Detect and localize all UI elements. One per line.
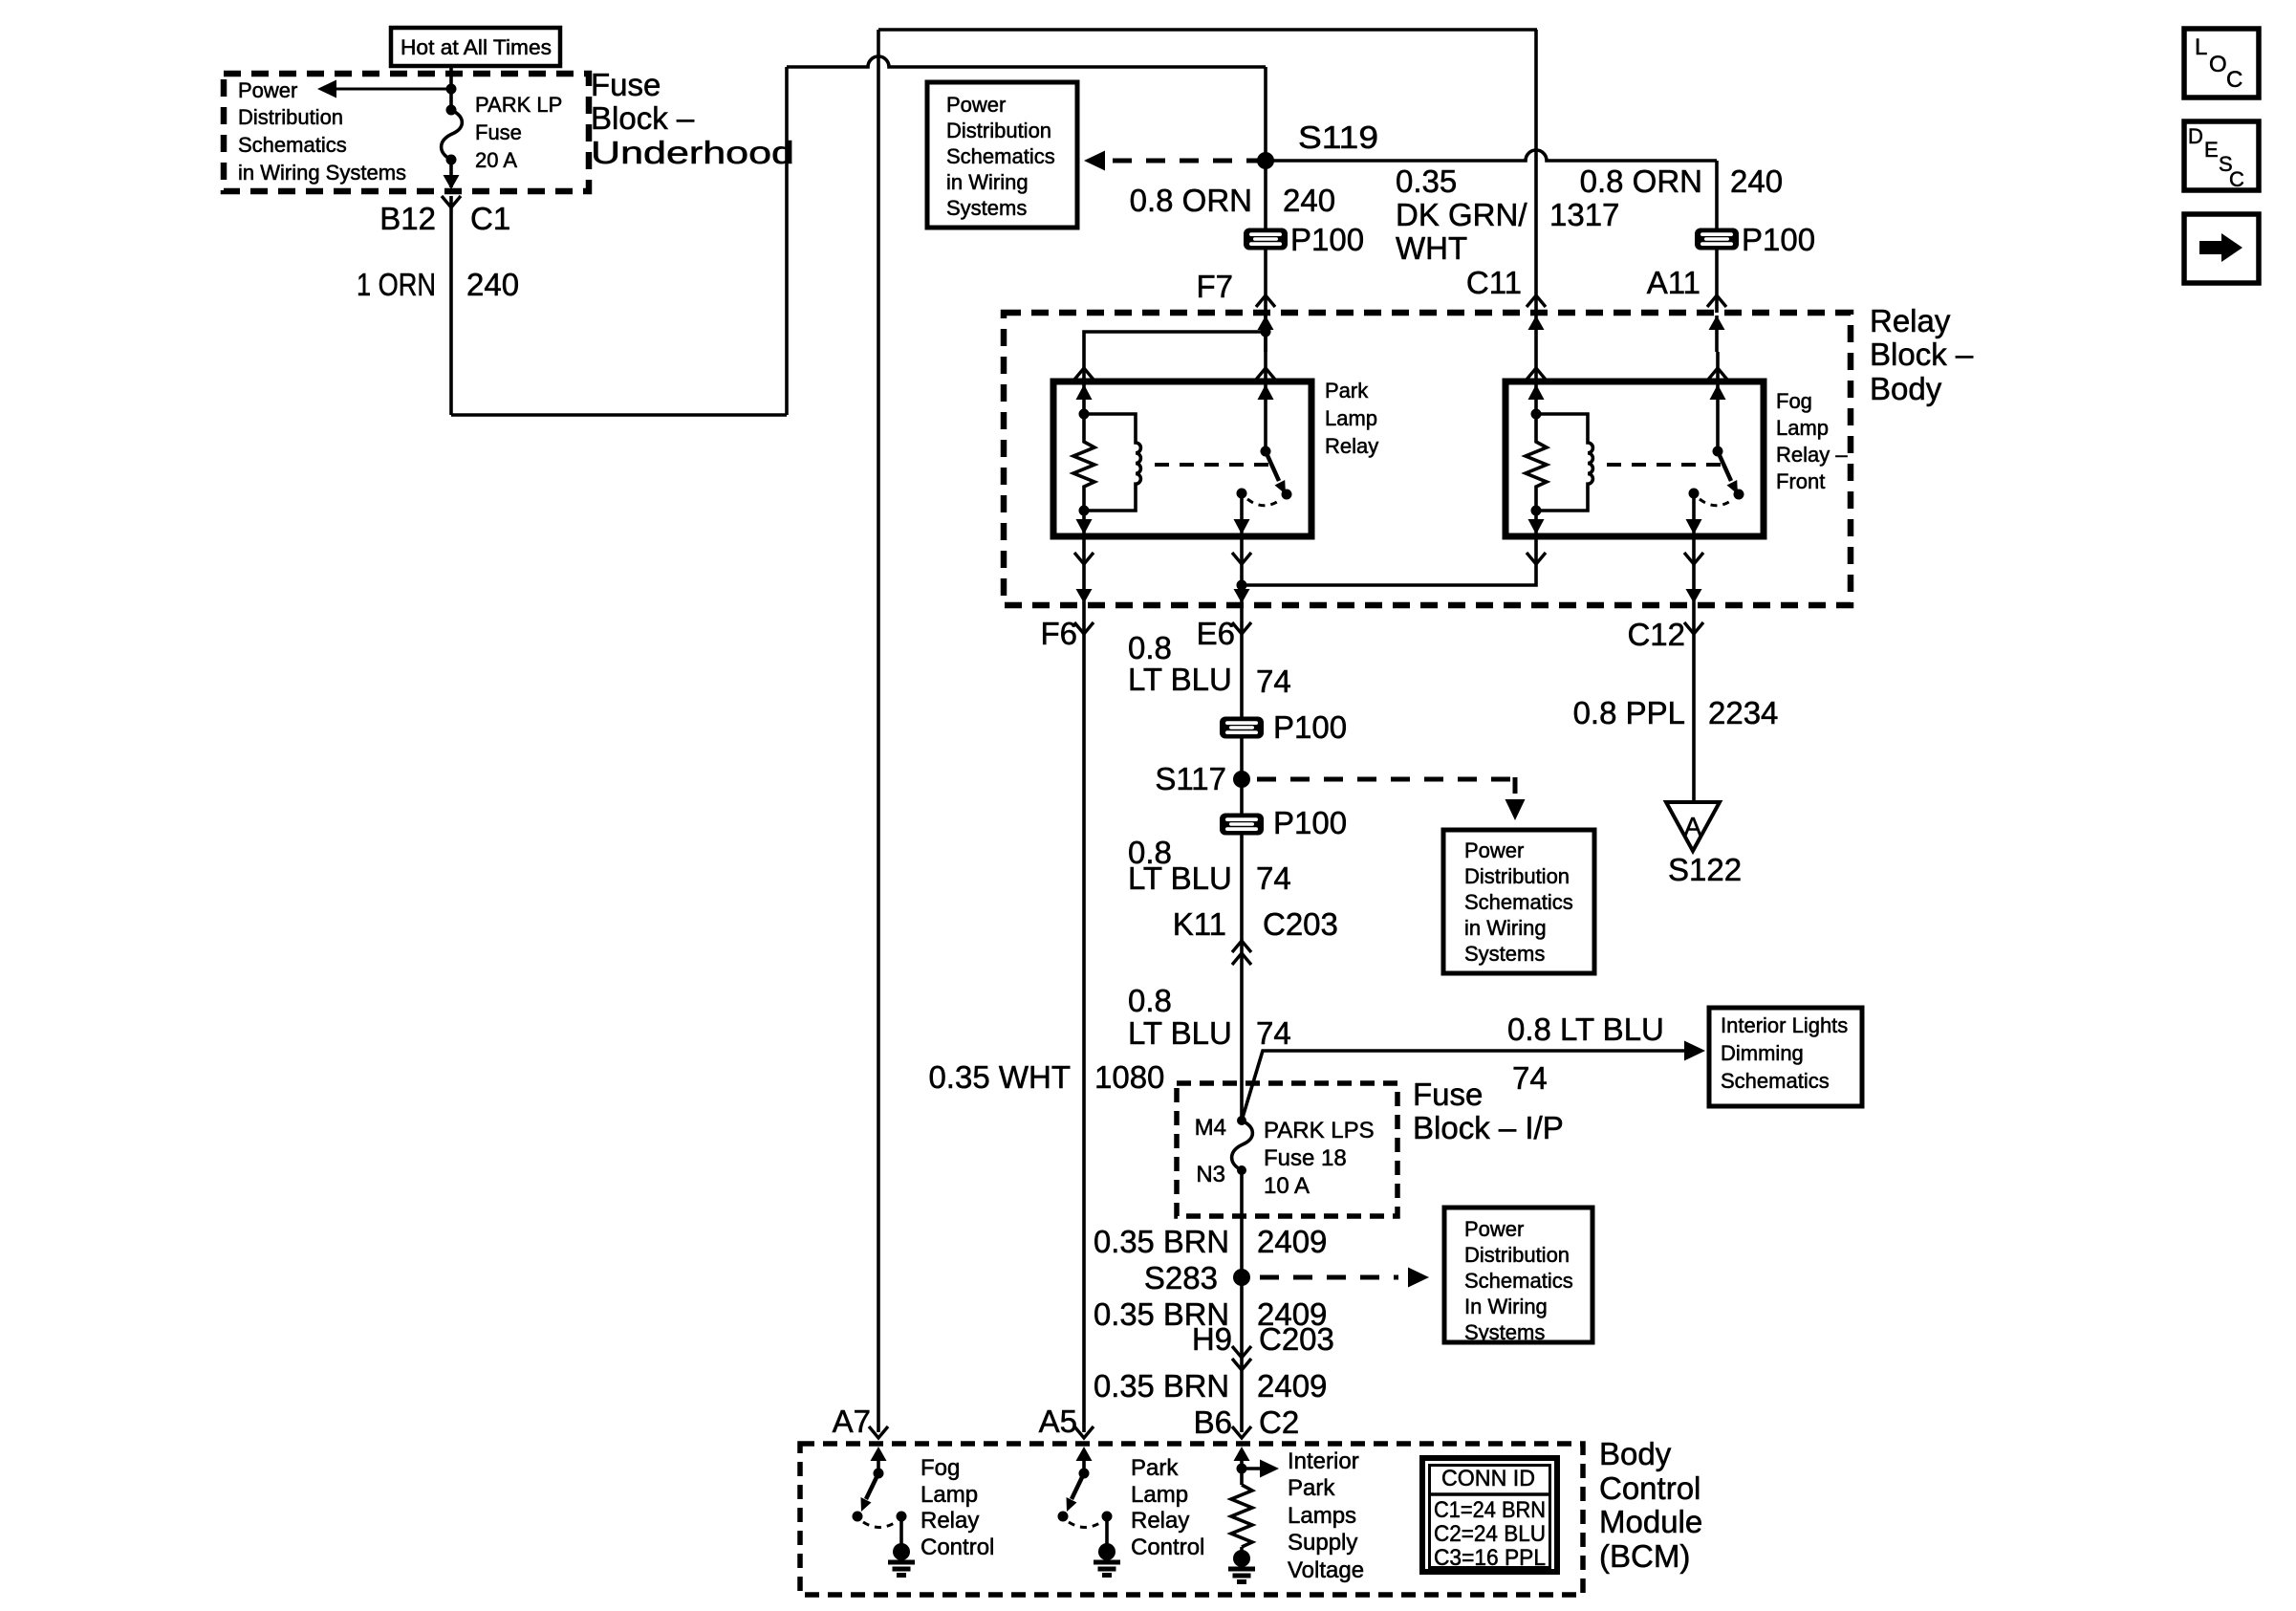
block Fuse Block - I/P dashed box <box>1177 1083 1397 1216</box>
svg-text:240: 240 <box>466 267 519 302</box>
svg-text:74: 74 <box>1256 860 1291 896</box>
svg-text:Hot at All Times: Hot at All Times <box>401 35 552 59</box>
wire F7 drop to S119 and down to relay block <box>1264 67 1267 381</box>
svg-text:C: C <box>2229 167 2244 191</box>
svg-text:A7: A7 <box>833 1404 871 1439</box>
svg-text:C203: C203 <box>1263 906 1338 942</box>
svg-text:A: A <box>1684 812 1702 841</box>
svg-text:Dimming: Dimming <box>1721 1041 1804 1065</box>
svg-text:Distribution: Distribution <box>1464 864 1570 888</box>
svg-text:Front: Front <box>1776 469 1825 493</box>
svg-text:74: 74 <box>1256 664 1291 699</box>
svg-text:0.8 ORN: 0.8 ORN <box>1130 183 1252 218</box>
svg-text:0.35 WHT: 0.35 WHT <box>928 1059 1071 1095</box>
svg-text:74: 74 <box>1512 1060 1548 1096</box>
wire branch from F7 to park relay coil <box>1084 332 1266 381</box>
wire horizontal y434 of C1 loop <box>451 413 787 417</box>
svg-text:Module: Module <box>1599 1504 1702 1539</box>
svg-text:D: D <box>2188 124 2203 148</box>
off-page connector triangle A (S122) <box>1666 802 1720 851</box>
svg-text:Voltage: Voltage <box>1288 1557 1364 1583</box>
svg-text:C2: C2 <box>1259 1404 1299 1440</box>
svg-text:in Wiring: in Wiring <box>946 170 1029 194</box>
svg-text:Park: Park <box>1288 1475 1335 1501</box>
svg-text:0.35: 0.35 <box>1396 163 1457 199</box>
wire A11 into fog relay switch <box>1716 352 1720 381</box>
button next arrow <box>2184 214 2259 283</box>
svg-text:S283: S283 <box>1144 1260 1218 1295</box>
svg-text:Interior: Interior <box>1288 1448 1359 1474</box>
svg-text:Power: Power <box>238 78 297 102</box>
svg-text:CONN ID: CONN ID <box>1441 1466 1535 1491</box>
svg-text:2409: 2409 <box>1257 1368 1327 1404</box>
svg-text:WHT: WHT <box>1396 230 1467 266</box>
switch Fog Lamp Relay Control (A7) <box>871 1447 887 1461</box>
svg-text:Block –: Block – <box>1870 337 1974 372</box>
svg-text:In Wiring: In Wiring <box>1464 1295 1548 1318</box>
svg-text:Control: Control <box>1131 1535 1204 1560</box>
fuse PARK LPS Fuse 18 10 A <box>1237 1116 1246 1125</box>
connector P100 on F7 wire <box>1244 229 1288 250</box>
fuse PARK LP 20 A <box>446 105 457 116</box>
box Power Distribution Schematics In Wiring Systems (S283) <box>1444 1208 1592 1342</box>
connector chevron C1 below fuse block <box>442 196 461 207</box>
dashed arrow S117 to Power Distribution box <box>1257 777 1515 782</box>
node junction on fuse feed <box>446 84 457 95</box>
svg-text:0.35 BRN: 0.35 BRN <box>1094 1368 1229 1404</box>
svg-text:Power: Power <box>946 93 1006 117</box>
svg-text:C203: C203 <box>1259 1321 1334 1357</box>
svg-text:Schematics: Schematics <box>1464 890 1573 914</box>
wire arrow to Power Distribution Schematics (left) <box>335 88 451 91</box>
svg-text:Relay –: Relay – <box>1776 443 1848 467</box>
svg-text:Schematics: Schematics <box>1721 1069 1830 1093</box>
svg-text:0.8: 0.8 <box>1128 983 1172 1018</box>
svg-text:1317: 1317 <box>1549 197 1619 232</box>
svg-text:Body: Body <box>1870 371 1942 406</box>
svg-text:Distribution: Distribution <box>1464 1243 1570 1267</box>
wire left tall rail down to BCM A7 <box>877 30 880 1432</box>
svg-text:S119: S119 <box>1298 120 1378 155</box>
svg-text:Systems: Systems <box>1464 1320 1545 1344</box>
svg-text:Control: Control <box>921 1535 994 1560</box>
svg-text:C2=24 BLU: C2=24 BLU <box>1434 1521 1546 1547</box>
svg-text:Fog: Fog <box>1776 389 1812 413</box>
svg-text:Relay: Relay <box>1870 303 1951 338</box>
dashed arrow S283 to Power Distribution box <box>1260 1275 1398 1280</box>
svg-text:Fuse: Fuse <box>475 120 522 144</box>
wire from fuse N3 down to BCM B6 <box>1240 1170 1244 1432</box>
svg-text:Supply: Supply <box>1288 1530 1357 1556</box>
svg-text:Fuse: Fuse <box>591 67 661 102</box>
svg-text:A5: A5 <box>1039 1404 1077 1439</box>
svg-text:C1=24 BRN: C1=24 BRN <box>1434 1497 1546 1523</box>
svg-text:B12: B12 <box>379 201 436 236</box>
svg-text:Schematics: Schematics <box>946 144 1055 168</box>
box Interior Lights Dimming Schematics <box>1709 1008 1862 1106</box>
wire C11 drop from top rail <box>1534 30 1538 313</box>
svg-text:Systems: Systems <box>946 196 1027 220</box>
svg-text:L: L <box>2195 34 2207 60</box>
svg-text:C12: C12 <box>1627 617 1685 652</box>
svg-text:Schematics: Schematics <box>1464 1269 1573 1293</box>
resistor Interior Park Lamps Supply Voltage (B6) <box>1234 1447 1250 1461</box>
svg-text:Fuse: Fuse <box>1413 1077 1483 1112</box>
button DESC <box>2184 121 2259 190</box>
svg-text:P100: P100 <box>1273 805 1347 840</box>
svg-text:0.35 BRN: 0.35 BRN <box>1094 1224 1229 1259</box>
wire fuse feed from Hot at All Times <box>449 66 453 110</box>
table CONN ID <box>1422 1458 1557 1572</box>
svg-text:Lamp: Lamp <box>1325 406 1377 430</box>
svg-text:Underhood: Underhood <box>591 135 794 170</box>
svg-text:Lamps: Lamps <box>1288 1503 1356 1529</box>
svg-text:A11: A11 <box>1647 265 1700 300</box>
svg-text:0.8: 0.8 <box>1128 630 1172 665</box>
wire fog switch output C12 down <box>1692 536 1696 802</box>
button LOC <box>2184 29 2259 98</box>
svg-text:M4: M4 <box>1195 1115 1226 1141</box>
svg-text:Park: Park <box>1131 1455 1179 1481</box>
block Body Control Module dashed box <box>800 1444 1583 1595</box>
svg-text:LT BLU: LT BLU <box>1128 1015 1232 1051</box>
svg-text:Block – I/P: Block – I/P <box>1413 1110 1564 1145</box>
svg-text:Lamp: Lamp <box>921 1482 978 1508</box>
svg-text:LT BLU: LT BLU <box>1128 860 1232 896</box>
splice S283 <box>1233 1269 1250 1286</box>
svg-text:F7: F7 <box>1196 269 1233 304</box>
wire S119 horizontal to A11 drop with hop over C11 <box>1266 150 1717 161</box>
splice S119 <box>1257 152 1274 169</box>
svg-text:Distribution: Distribution <box>946 119 1051 142</box>
svg-text:0.8 LT BLU: 0.8 LT BLU <box>1507 1012 1664 1047</box>
svg-text:C: C <box>2226 67 2242 93</box>
connector chevrons at BCM top edge A7 A5 B6 <box>869 1426 888 1438</box>
svg-text:PARK LP: PARK LP <box>475 93 562 117</box>
svg-text:in Wiring: in Wiring <box>1464 916 1547 940</box>
svg-text:O: O <box>2209 52 2227 77</box>
svg-text:C11: C11 <box>1466 265 1522 300</box>
svg-text:0.8 ORN: 0.8 ORN <box>1580 163 1702 199</box>
connector C203 double chevron down <box>1232 1346 1251 1358</box>
svg-text:S117: S117 <box>1155 761 1226 796</box>
svg-text:Control: Control <box>1599 1470 1700 1506</box>
svg-text:C3=16 PPL: C3=16 PPL <box>1434 1545 1546 1571</box>
wire park switch output E6 down <box>1240 536 1244 1121</box>
svg-text:P100: P100 <box>1290 222 1364 257</box>
svg-text:20 A: 20 A <box>475 148 517 172</box>
svg-text:F6: F6 <box>1040 616 1077 651</box>
wire park coil output F6 down through block edge <box>1082 536 1086 1432</box>
splice S117 <box>1233 771 1250 788</box>
svg-text:E6: E6 <box>1197 616 1235 651</box>
svg-text:Fog: Fog <box>921 1455 960 1481</box>
switch Park Lamp Relay Control (A5) <box>1076 1447 1093 1461</box>
relay Fog Lamp Relay - Front <box>1505 368 1764 564</box>
svg-text:in Wiring Systems: in Wiring Systems <box>238 161 406 185</box>
svg-text:Lamp: Lamp <box>1776 416 1829 440</box>
svg-text:P100: P100 <box>1742 222 1815 257</box>
node E6 junction to fog coil return <box>1237 580 1247 591</box>
connector P100 on A11 wire <box>1695 229 1739 250</box>
svg-text:2409: 2409 <box>1257 1224 1327 1259</box>
svg-text:H9: H9 <box>1192 1321 1232 1357</box>
svg-text:Schematics: Schematics <box>238 133 347 157</box>
svg-text:Body: Body <box>1599 1436 1672 1471</box>
wire second rail y70 from fuse block riser to F7 drop with hop over A7 rail <box>787 56 1266 67</box>
svg-text:LT BLU: LT BLU <box>1128 662 1232 697</box>
svg-text:K11: K11 <box>1173 906 1226 942</box>
dashed arrow S119 to Power Distribution box <box>1107 159 1266 163</box>
wire A11 drop <box>1715 161 1719 313</box>
svg-text:C1: C1 <box>470 201 510 236</box>
node branch dot on F7 wire <box>1261 327 1271 337</box>
svg-text:N3: N3 <box>1196 1162 1225 1187</box>
svg-text:PARK LPS: PARK LPS <box>1264 1118 1375 1143</box>
svg-text:Lamp: Lamp <box>1131 1482 1188 1508</box>
svg-text:(BCM): (BCM) <box>1599 1538 1690 1574</box>
block Fuse Block - Underhood dashed box <box>224 74 589 191</box>
connector P100 second on E6 wire <box>1220 814 1264 836</box>
svg-text:Block –: Block – <box>591 100 695 136</box>
svg-text:10 A: 10 A <box>1264 1173 1310 1199</box>
svg-text:P100: P100 <box>1273 709 1347 745</box>
wire branch to Interior Lights Dimming with arrow <box>1242 1051 1684 1121</box>
svg-text:Power: Power <box>1464 838 1524 862</box>
svg-text:1080: 1080 <box>1094 1059 1164 1095</box>
wire riser x823 from C1 loop <box>785 67 789 415</box>
svg-text:2234: 2234 <box>1708 695 1778 730</box>
svg-text:0.8 PPL: 0.8 PPL <box>1573 695 1685 730</box>
connector P100 on E6 wire <box>1220 717 1264 739</box>
svg-text:Relay: Relay <box>921 1508 979 1534</box>
svg-text:240: 240 <box>1283 183 1335 218</box>
svg-text:Systems: Systems <box>1464 942 1545 966</box>
wire top rail from BCM A7 column to C11 <box>878 28 1537 32</box>
relay Park Lamp Relay <box>1053 368 1311 564</box>
svg-text:Power: Power <box>1464 1217 1524 1241</box>
svg-text:Fuse 18: Fuse 18 <box>1264 1145 1347 1171</box>
svg-text:Relay: Relay <box>1131 1508 1189 1534</box>
box Power Distribution Schematics in Wiring Systems (S117) <box>1443 830 1594 973</box>
box Power Distribution Schematics in Wiring Systems (S119) <box>927 82 1077 228</box>
box Hot at All Times <box>391 28 560 66</box>
svg-text:DK GRN/: DK GRN/ <box>1396 197 1527 232</box>
wire 1 ORN 240 from fuse C1 down <box>449 196 453 415</box>
svg-text:1 ORN: 1 ORN <box>357 267 436 302</box>
block Relay Block - Body dashed box <box>1004 313 1851 605</box>
svg-text:74: 74 <box>1256 1015 1291 1051</box>
wire fog coil return to E6 junction <box>1242 536 1536 585</box>
svg-text:Interior Lights: Interior Lights <box>1721 1013 1848 1037</box>
svg-text:Distribution: Distribution <box>238 105 343 129</box>
connector chevrons at relay block top edge <box>1256 295 1275 307</box>
svg-text:S122: S122 <box>1668 852 1742 887</box>
connector C203 double chevron up <box>1232 941 1251 952</box>
wire C11 into fog relay coil <box>1534 352 1538 381</box>
svg-text:240: 240 <box>1730 163 1783 199</box>
svg-text:E: E <box>2204 138 2219 162</box>
svg-text:Relay: Relay <box>1325 434 1378 458</box>
svg-text:Park: Park <box>1325 379 1369 403</box>
svg-text:B6: B6 <box>1194 1404 1232 1440</box>
